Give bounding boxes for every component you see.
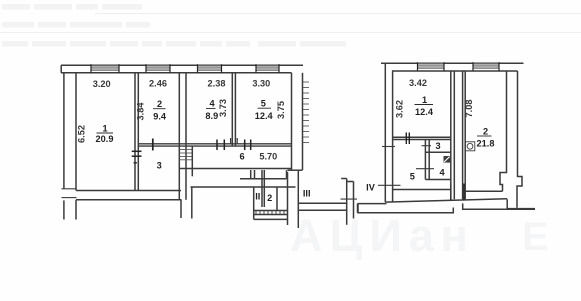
svg-text:3.84: 3.84	[136, 102, 146, 121]
room 4 box	[425, 179, 450, 181]
stair closet wall	[276, 188, 278, 211]
corridor 6 west wall	[191, 146, 193, 176]
window WA	[418, 64, 445, 69]
bottom wall inner line	[76, 190, 181, 192]
south outer line	[191, 186, 296, 188]
svg-text:3: 3	[157, 161, 162, 171]
shaft door dash	[341, 198, 358, 200]
staircase steps band	[254, 210, 288, 212]
staircase left wall	[253, 187, 255, 219]
svg-text:3.20: 3.20	[93, 79, 111, 89]
bottom outer line	[385, 199, 507, 202]
faint header text row 3	[2, 41, 346, 47]
entry door jambs	[450, 184, 452, 201]
left wall gap ticks	[62, 188, 77, 190]
right wall inner + niche	[500, 71, 507, 191]
svg-text:12.4: 12.4	[255, 111, 274, 121]
svg-text:5.70: 5.70	[259, 151, 277, 161]
bottom inner line east	[465, 190, 502, 192]
sink box with circle	[465, 142, 475, 151]
watermark CIAN	[290, 210, 549, 261]
svg-text:3.62: 3.62	[395, 100, 405, 118]
window W1	[91, 66, 119, 71]
svg-text:6: 6	[239, 152, 244, 162]
svg-text:3.42: 3.42	[409, 78, 427, 88]
porch 1	[358, 204, 453, 213]
door ticks on corridor wall	[217, 140, 251, 151]
svg-text:12.4: 12.4	[415, 107, 434, 117]
svg-text:6.52: 6.52	[77, 125, 87, 143]
stair landing line	[240, 178, 287, 180]
faint header text row 1	[2, 4, 142, 10]
svg-text:2: 2	[157, 99, 162, 109]
divider room1|room2	[450, 71, 452, 199]
IV shaft west wall	[346, 179, 348, 225]
svg-text:2.38: 2.38	[208, 79, 226, 89]
room 3 walls	[424, 140, 426, 180]
left wall outer	[384, 63, 386, 202]
svg-text:3.30: 3.30	[252, 79, 270, 89]
porch 2	[463, 203, 535, 209]
svg-text:4: 4	[209, 99, 215, 109]
bottom inner line west	[392, 189, 451, 191]
long double line	[298, 202, 347, 204]
right wall outer + notch	[517, 71, 522, 208]
window edge ticks right block	[418, 62, 500, 71]
svg-text:3.73: 3.73	[218, 99, 228, 117]
wall room1|room2-3	[134, 73, 136, 191]
IV door dash	[378, 184, 401, 186]
top wall inner line	[61, 72, 292, 74]
window edge ticks left block	[91, 64, 279, 73]
svg-text:АЦИан: АЦИан	[290, 210, 475, 261]
svg-text:2.46: 2.46	[149, 79, 167, 89]
svg-text:3: 3	[435, 141, 440, 151]
top wall outer line	[381, 62, 524, 64]
window W2	[146, 66, 170, 71]
room 3 door dash	[422, 145, 432, 147]
svg-text:20.9: 20.9	[96, 134, 114, 144]
door ticks wall 1|3	[132, 150, 142, 152]
left wall inner line	[75, 73, 77, 191]
svg-text:2: 2	[267, 193, 272, 203]
wall room2 west (wall B)	[462, 71, 464, 199]
divider foot stubs	[230, 138, 232, 144]
fraction bars	[97, 132, 114, 134]
party wall hatch	[303, 82, 309, 143]
top wall outer line	[61, 64, 303, 66]
left wall outer line	[63, 73, 65, 189]
window WB	[473, 64, 499, 69]
passage west wall	[180, 200, 182, 218]
vent hatch in wall 2|4	[179, 150, 192, 160]
door ticks under room1	[405, 133, 407, 145]
svg-text:9.4: 9.4	[153, 112, 167, 122]
window W4	[256, 66, 279, 71]
bottom wall corner down	[506, 199, 508, 208]
IV shaft east wall	[353, 182, 355, 219]
notch closure	[286, 170, 288, 179]
wall room2|room4 left line	[178, 73, 180, 200]
svg-text:III: III	[303, 189, 311, 199]
left wall tick	[382, 146, 395, 148]
svg-text:3.75: 3.75	[276, 101, 286, 119]
svg-text:8.9: 8.9	[205, 111, 218, 121]
staircase bottom	[254, 218, 288, 220]
svg-text:7.08: 7.08	[464, 100, 474, 118]
right wall notch step	[288, 169, 303, 171]
svg-text:IV: IV	[366, 183, 376, 193]
faint header rule 2	[0, 32, 581, 34]
staircase right wall	[287, 172, 289, 225]
right wall outer line	[302, 73, 304, 170]
left wall inner	[392, 71, 394, 202]
svg-text:II: II	[255, 192, 260, 202]
bottom wall outer line	[76, 199, 182, 201]
passage verticals	[191, 187, 193, 219]
stair divider II	[261, 170, 263, 207]
top-left stub	[60, 65, 62, 73]
svg-text:21.8: 21.8	[477, 139, 495, 149]
divider room4|room5	[231, 73, 233, 147]
faint header text row 2	[2, 22, 150, 28]
svg-text:1: 1	[422, 95, 427, 105]
stair door posts	[250, 170, 252, 179]
corridor/room-bottom wall (y144)	[138, 143, 291, 145]
right wall inner line	[291, 73, 293, 170]
faint header rule 1	[95, 13, 581, 15]
svg-text:5: 5	[261, 99, 266, 109]
door tick room2/3	[152, 139, 154, 151]
svg-text:1: 1	[102, 124, 107, 134]
svg-text:5: 5	[410, 172, 415, 182]
svg-text:2: 2	[483, 127, 488, 137]
interior wall under room 1	[392, 136, 451, 138]
wall room2|room4 right line	[185, 73, 187, 200]
svg-text:Е: Е	[522, 215, 549, 259]
window W3	[198, 66, 222, 71]
svg-text:4: 4	[439, 168, 445, 178]
room 4 door dash	[416, 168, 434, 170]
step line to right block	[358, 203, 387, 205]
corridor 6 south inner line	[179, 168, 291, 170]
top wall inner line	[392, 70, 518, 72]
vent square	[444, 156, 451, 163]
